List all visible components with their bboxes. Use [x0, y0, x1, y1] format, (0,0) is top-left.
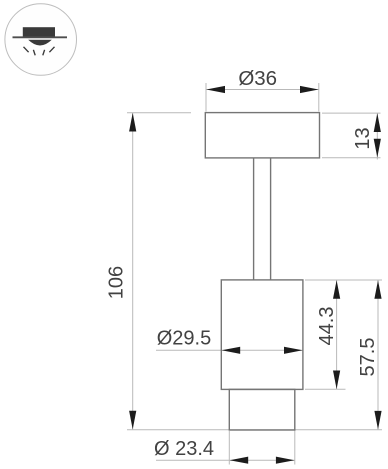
svg-text:57.5: 57.5 — [357, 338, 379, 377]
svg-text:106: 106 — [105, 266, 127, 299]
svg-text:Ø 23.4: Ø 23.4 — [154, 438, 214, 460]
svg-text:Ø29.5: Ø29.5 — [157, 328, 211, 350]
svg-text:Ø36: Ø36 — [238, 67, 277, 90]
svg-text:44.3: 44.3 — [316, 307, 338, 346]
svg-text:13: 13 — [352, 127, 374, 149]
